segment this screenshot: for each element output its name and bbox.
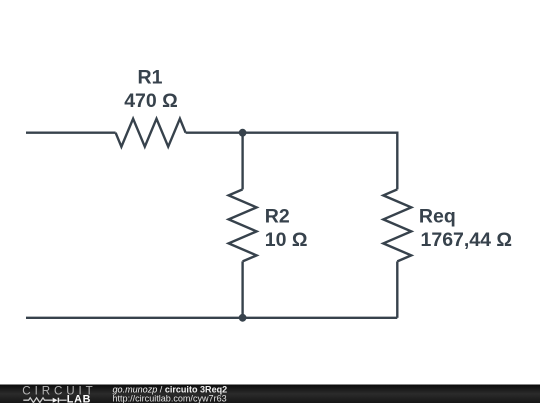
footer bar xyxy=(0,385,540,404)
CircuitLab logo: diode symbol xyxy=(53,398,67,403)
wire: Req bottom lead xyxy=(396,261,398,317)
svg-text:Req: Req xyxy=(419,206,456,228)
node A: top junction dot xyxy=(239,129,247,137)
svg-text:LAB: LAB xyxy=(67,394,91,405)
wire: top middle segment (R1 to node A) xyxy=(186,131,243,133)
CircuitLab logo: CIRCUIT wordmark xyxy=(22,384,96,397)
svg-text:R2: R2 xyxy=(265,206,290,228)
label R1 xyxy=(138,67,163,89)
value 10 Ω xyxy=(265,229,308,251)
node B: bottom junction dot xyxy=(239,314,247,322)
wire: top right segment (node A to right corner, down to Req) xyxy=(243,133,398,190)
wire: R2 top lead xyxy=(241,133,243,190)
footer title: go.munozp / circuito 3Req2 xyxy=(113,384,228,394)
svg-text:470 Ω: 470 Ω xyxy=(124,90,178,112)
svg-text:1767,44 Ω: 1767,44 Ω xyxy=(421,229,513,251)
label Req xyxy=(419,206,456,228)
svg-text:R1: R1 xyxy=(138,67,163,89)
svg-text:http://circuitlab.com/cyw7r63: http://circuitlab.com/cyw7r63 xyxy=(113,393,227,403)
resistor R1 zigzag xyxy=(116,119,186,147)
value 470 Ω xyxy=(124,90,178,112)
value 1767,44 Ω xyxy=(421,229,513,251)
footer url: http://circuitlab.com/cyw7r63 xyxy=(113,393,227,403)
resistor Req zigzag xyxy=(383,189,411,261)
wire: R2 bottom lead xyxy=(241,261,243,317)
wire: bottom horizontal xyxy=(26,317,397,319)
resistor R2 zigzag xyxy=(229,189,257,261)
wire: top-left horizontal segment xyxy=(26,131,116,133)
label R2 xyxy=(265,206,290,228)
CircuitLab logo: resistor zigzag symbol xyxy=(23,398,53,403)
CircuitLab logo: LAB wordmark xyxy=(67,394,91,405)
svg-text:10 Ω: 10 Ω xyxy=(265,229,308,251)
